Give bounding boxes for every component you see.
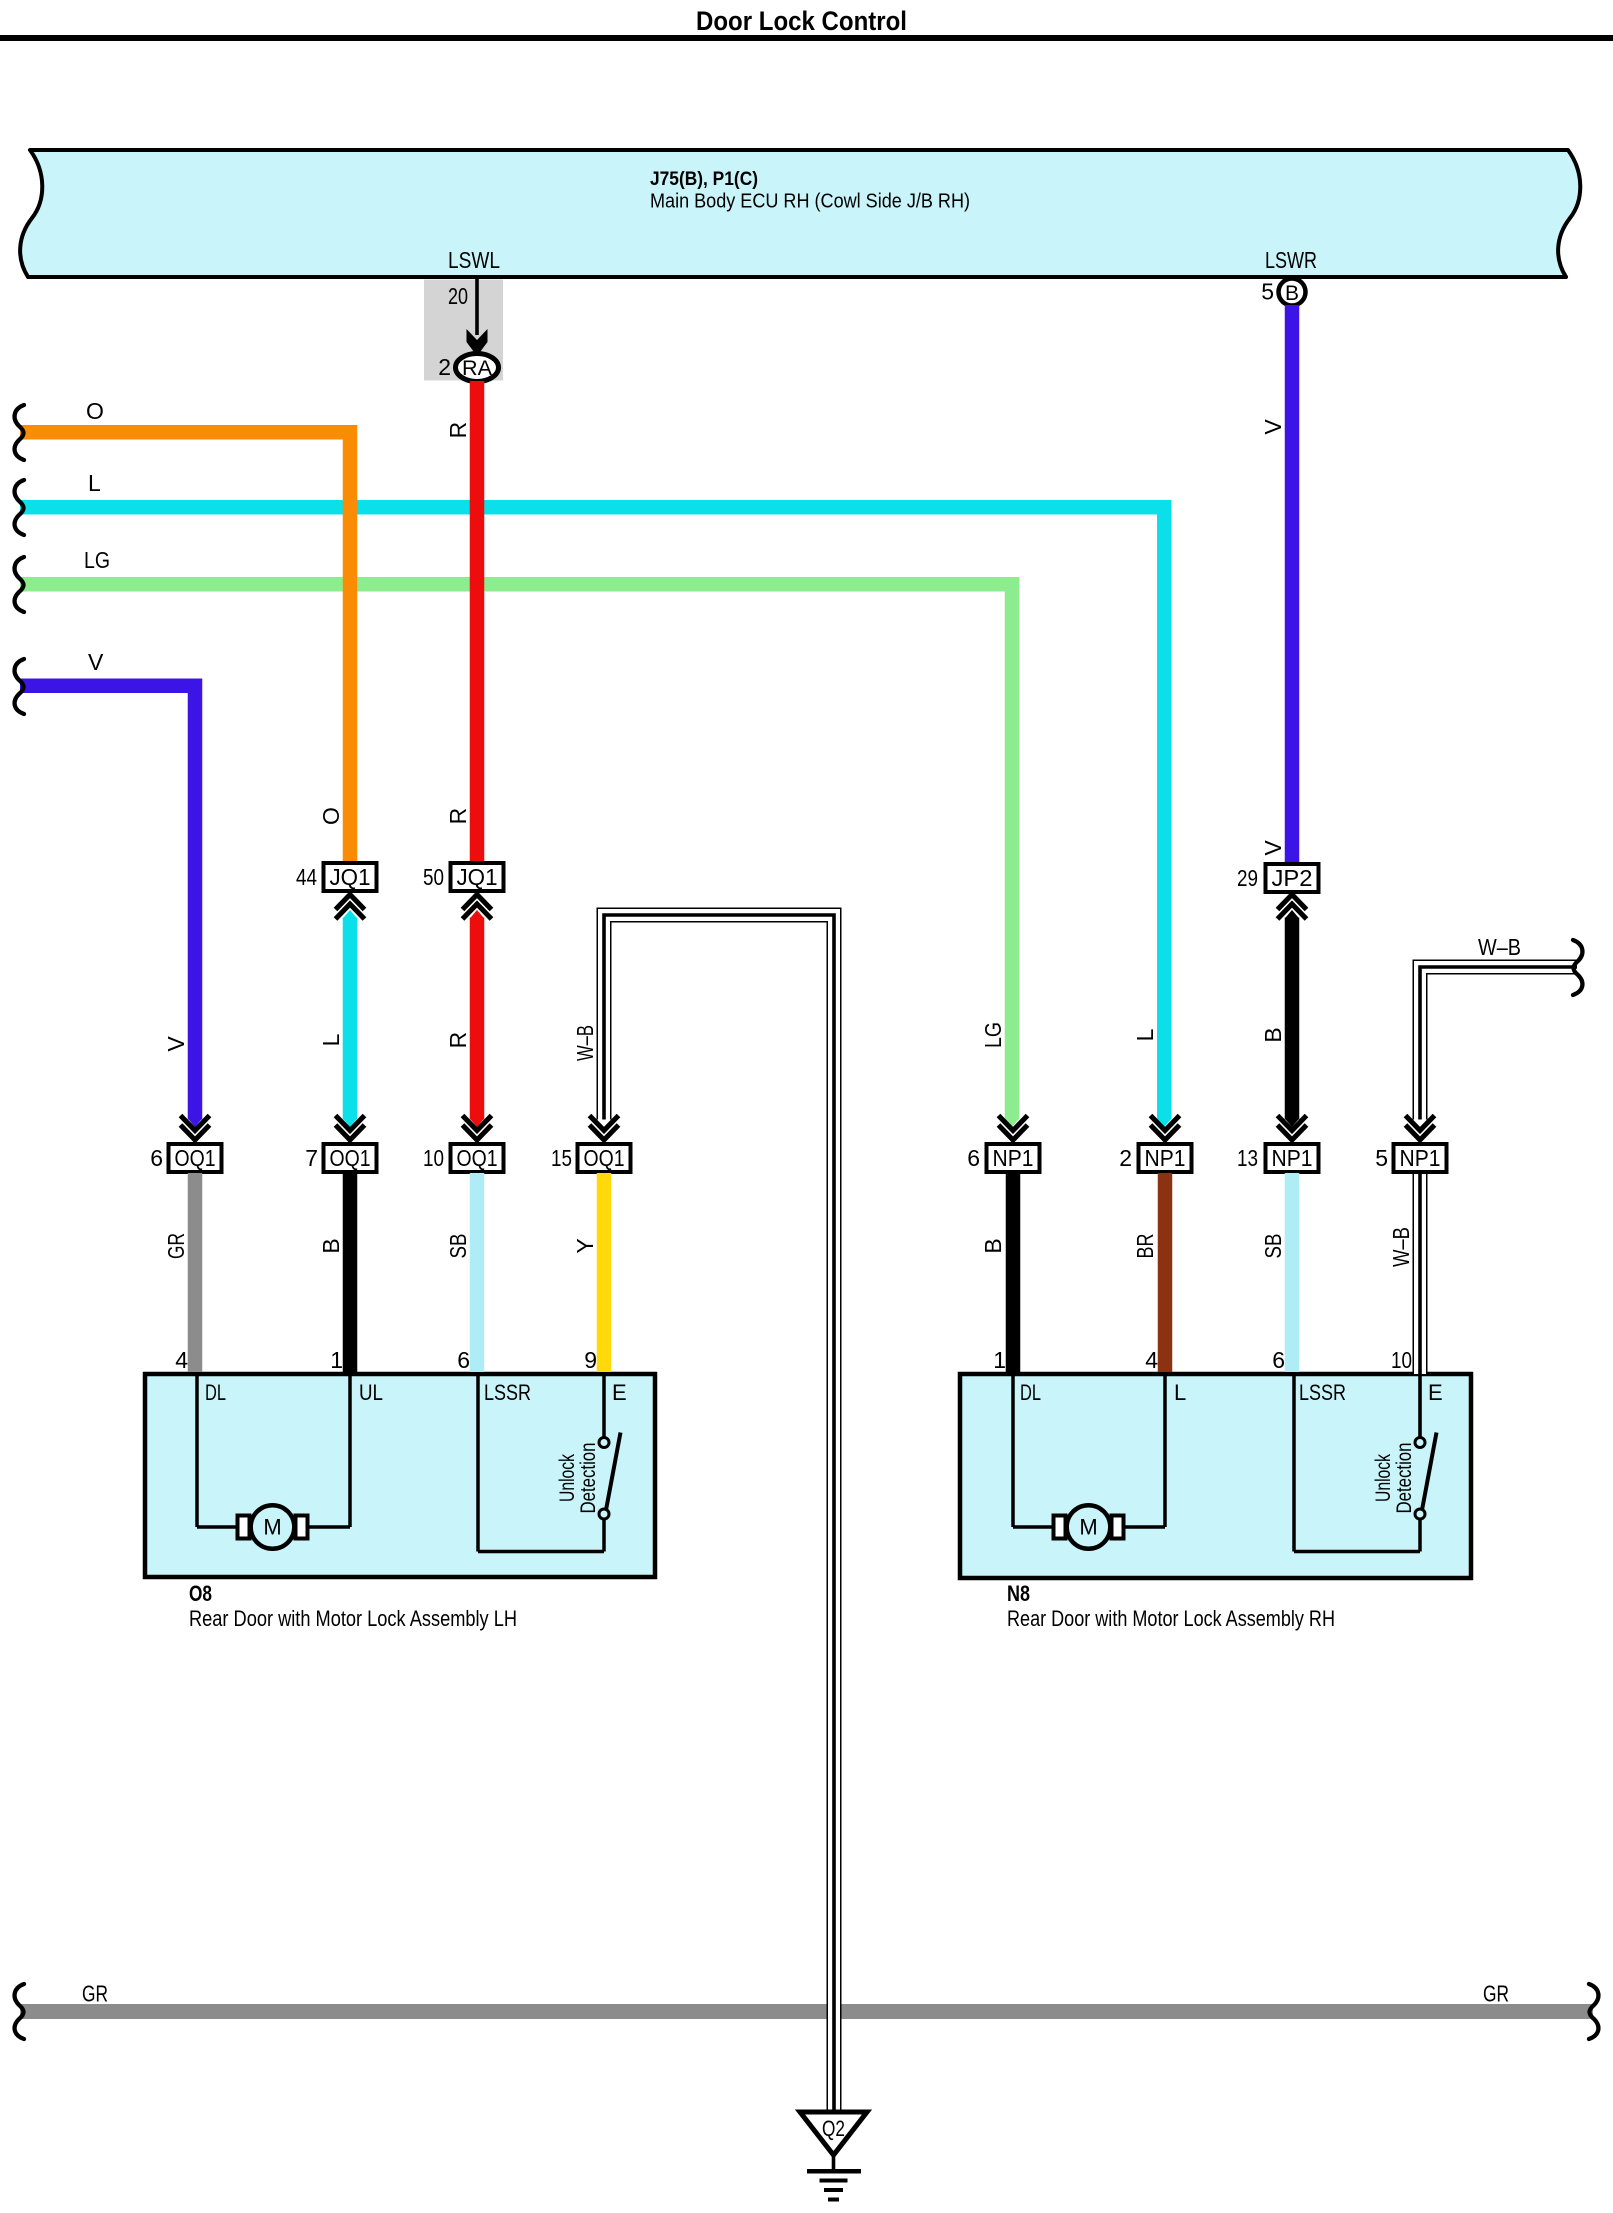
- svg-text:LSSR: LSSR: [1299, 1380, 1346, 1405]
- svg-text:V: V: [163, 1036, 189, 1052]
- connector JQ1 pin 44: [296, 863, 377, 891]
- arrow into NP1 2: [1151, 1116, 1180, 1145]
- svg-text:6: 6: [967, 1145, 980, 1171]
- block N8 LSSR loop: [1294, 1376, 1420, 1552]
- arrow into OQ1 6: [181, 1116, 210, 1145]
- caption O8: [189, 1581, 517, 1631]
- svg-text:B: B: [980, 1238, 1006, 1253]
- block N8 terminal labels: [1020, 1380, 1443, 1405]
- svg-text:4: 4: [1145, 1347, 1158, 1373]
- svg-text:W–B: W–B: [1388, 1227, 1414, 1267]
- connector OQ1 pin 15: [551, 1144, 631, 1172]
- title rule: [0, 35, 1613, 41]
- connector OQ1 pin 10: [423, 1144, 504, 1172]
- arrow into OQ1 10: [463, 1116, 492, 1145]
- title: Door Lock Control: [696, 6, 907, 36]
- label R middle: [445, 808, 471, 825]
- wire B from OQ1 7 to O8 pin 1: [343, 1173, 358, 1372]
- connector NP1 pin 2: [1119, 1144, 1191, 1172]
- svg-text:SB: SB: [445, 1234, 471, 1259]
- pin label LSWL: [448, 247, 500, 273]
- arrow into OQ1 15: [590, 1116, 619, 1145]
- svg-text:O: O: [86, 398, 104, 424]
- svg-text:Unlock: Unlock: [1372, 1454, 1395, 1502]
- pin 6 of O8: [457, 1347, 470, 1373]
- svg-text:B: B: [1285, 282, 1299, 305]
- svg-text:GR: GR: [1483, 1981, 1509, 2007]
- wire R (red) from JQ1 50 to OQ1 10: [470, 910, 485, 1127]
- block O8 terminal labels: [205, 1380, 627, 1405]
- svg-text:10: 10: [423, 1145, 444, 1171]
- label L right vertical: [1132, 1028, 1158, 1041]
- svg-text:1: 1: [330, 1347, 343, 1373]
- label R upper: [445, 422, 471, 439]
- connector JP2 pin 29: [1237, 864, 1319, 892]
- label V right upper: [1260, 419, 1286, 435]
- caption N8: [1007, 1581, 1335, 1631]
- svg-text:Rear Door with Motor Lock Asse: Rear Door with Motor Lock Assembly RH: [1007, 1606, 1335, 1631]
- wire SB from NP1 13 to N8 pin 6: [1285, 1173, 1300, 1372]
- svg-text:5: 5: [1261, 279, 1274, 305]
- block O8 DL lead: [197, 1376, 237, 1527]
- svg-text:O8: O8: [189, 1581, 212, 1606]
- label V left vertical: [163, 1036, 189, 1052]
- wire W-B from OQ1 15 to ground Q2: [604, 915, 834, 2112]
- svg-text:LSSR: LSSR: [484, 1380, 531, 1405]
- svg-text:W–B: W–B: [1478, 934, 1521, 960]
- wire L (cyan) from JQ1 44 to OQ1 7: [343, 910, 358, 1127]
- label L: [88, 470, 101, 496]
- label V: [88, 649, 104, 675]
- label W-B right: [1478, 934, 1521, 960]
- label SB right vertical: [1260, 1234, 1286, 1259]
- wire B from NP1 6 to N8 pin 1: [1006, 1173, 1021, 1372]
- svg-text:6: 6: [1272, 1347, 1285, 1373]
- wire Y from OQ1 15 to O8 pin 9: [597, 1173, 612, 1372]
- svg-text:29: 29: [1237, 865, 1258, 891]
- label O vertical: [318, 807, 344, 825]
- GR bus bar: [20, 2004, 1593, 2019]
- wire SB from OQ1 10 to O8 pin 6: [470, 1173, 485, 1372]
- pin 4 of N8: [1145, 1347, 1158, 1373]
- block N8 Rear Door with Motor Lock Assembly RH (outline): [960, 1374, 1471, 1578]
- arrow into JP2 29: [1278, 890, 1307, 919]
- svg-text:B: B: [318, 1238, 344, 1253]
- connector B pin 5: [1261, 279, 1305, 306]
- svg-text:7: 7: [305, 1145, 318, 1171]
- label W-B right vertical: [1388, 1227, 1414, 1267]
- svg-text:Detection: Detection: [577, 1443, 600, 1514]
- svg-text:J75(B), P1(C): J75(B), P1(C): [650, 169, 758, 190]
- svg-text:V: V: [88, 649, 104, 675]
- svg-text:OQ1: OQ1: [175, 1145, 216, 1171]
- svg-text:L: L: [318, 1033, 344, 1046]
- wire BR from NP1 2 to N8 pin 4: [1158, 1173, 1173, 1372]
- svg-text:Rear Door with Motor Lock Asse: Rear Door with Motor Lock Assembly LH: [189, 1606, 517, 1631]
- splice RA pin 2: [438, 354, 498, 382]
- svg-text:GR: GR: [82, 1981, 108, 2007]
- svg-text:R: R: [445, 422, 471, 439]
- label B JP2 wire: [1260, 1027, 1286, 1042]
- label Unlock Detection N8: [1372, 1443, 1416, 1514]
- svg-text:9: 9: [584, 1347, 597, 1373]
- svg-text:O: O: [318, 807, 344, 825]
- pin 10 of N8: [1391, 1347, 1412, 1373]
- svg-text:E: E: [1428, 1380, 1443, 1405]
- svg-text:NP1: NP1: [1145, 1145, 1186, 1171]
- block O8 LSSR loop: [478, 1376, 604, 1552]
- connector JQ1 pin 50: [423, 863, 504, 891]
- block N8 L lead: [1123, 1376, 1165, 1527]
- unlock detection switch of N8: [1415, 1433, 1437, 1520]
- label O: [86, 398, 104, 424]
- break symbol wire O: [15, 405, 24, 460]
- svg-text:R: R: [445, 1032, 471, 1049]
- svg-text:OQ1: OQ1: [330, 1145, 371, 1171]
- pin 9 of O8: [584, 1347, 597, 1373]
- svg-text:GR: GR: [163, 1233, 189, 1259]
- svg-text:B: B: [1260, 1027, 1286, 1042]
- motor M of O8: [238, 1505, 308, 1549]
- svg-text:SB: SB: [1260, 1234, 1286, 1259]
- break symbol wire L: [15, 480, 24, 535]
- pin 20 lead with arrow: [448, 277, 488, 356]
- block O8 UL lead: [307, 1376, 350, 1527]
- wire V (violet) from connector B to JP2 29: [1285, 305, 1300, 864]
- break symbol wire LG: [15, 557, 24, 612]
- svg-text:6: 6: [457, 1347, 470, 1373]
- arrow into JQ1 44: [336, 890, 365, 919]
- pin label LSWR: [1265, 247, 1317, 273]
- label Y vertical: [572, 1238, 598, 1253]
- break symbol wire W-B right: [1573, 940, 1582, 995]
- pin 4 of O8: [175, 1347, 188, 1373]
- svg-text:Detection: Detection: [1393, 1443, 1416, 1514]
- svg-text:LG: LG: [84, 547, 110, 573]
- svg-text:Unlock: Unlock: [556, 1454, 579, 1502]
- pin 1 of O8: [330, 1347, 343, 1373]
- svg-text:JQ1: JQ1: [457, 864, 498, 890]
- motor M of N8: [1054, 1505, 1124, 1549]
- svg-text:M: M: [263, 1515, 281, 1540]
- svg-text:Main Body ECU RH (Cowl Side J/: Main Body ECU RH (Cowl Side J/B RH): [650, 191, 970, 213]
- label BR vertical: [1132, 1234, 1158, 1259]
- label V right middle: [1260, 840, 1286, 856]
- svg-text:L: L: [1174, 1380, 1186, 1405]
- svg-text:Q2: Q2: [822, 2116, 845, 2141]
- connector OQ1 pin 7: [305, 1144, 376, 1172]
- svg-text:44: 44: [296, 864, 317, 890]
- ground Q2: [800, 2112, 867, 2202]
- svg-text:OQ1: OQ1: [584, 1145, 625, 1171]
- wire R (red) from splice RA to JQ1 50: [470, 381, 485, 863]
- connector NP1 pin 5: [1375, 1144, 1446, 1172]
- break symbol GR right: [1589, 1984, 1598, 2039]
- wire V (violet) from left edge to OQ1 6: [20, 686, 202, 1127]
- connector NP1 pin 6: [967, 1144, 1039, 1172]
- break symbol GR left: [15, 1984, 24, 2039]
- svg-text:RA: RA: [462, 357, 492, 380]
- label LG: [84, 547, 110, 573]
- pin 6 of N8: [1272, 1347, 1285, 1373]
- wire W-B stripe inside block N8: [1418, 1374, 1422, 1438]
- block O8 Rear Door with Motor Lock Assembly LH (outline): [145, 1374, 655, 1577]
- svg-text:6: 6: [150, 1145, 163, 1171]
- wire B (black) from JP2 29 to NP1 13: [1285, 910, 1300, 1127]
- svg-text:4: 4: [175, 1347, 188, 1373]
- svg-text:L: L: [1132, 1028, 1158, 1041]
- svg-text:Door Lock Control: Door Lock Control: [696, 6, 907, 36]
- arrow into NP1 5: [1406, 1116, 1435, 1145]
- svg-text:DL: DL: [1020, 1380, 1041, 1405]
- connector OQ1 pin 6: [150, 1144, 221, 1172]
- svg-text:M: M: [1079, 1515, 1097, 1540]
- svg-text:LSWR: LSWR: [1265, 247, 1317, 273]
- svg-text:V: V: [1260, 419, 1286, 435]
- label GR vertical: [163, 1233, 189, 1259]
- svg-text:Y: Y: [572, 1238, 598, 1253]
- svg-text:2: 2: [438, 354, 451, 380]
- label B left vertical: [318, 1238, 344, 1253]
- label GR left: [82, 1981, 108, 2007]
- svg-text:E: E: [612, 1380, 627, 1405]
- break symbol wire V: [15, 659, 24, 714]
- wire LG (light green) from left edge to NP1 6: [20, 584, 1019, 1127]
- svg-text:V: V: [1260, 840, 1286, 856]
- label GR right: [1483, 1981, 1509, 2007]
- svg-text:13: 13: [1237, 1145, 1258, 1171]
- svg-text:LSWL: LSWL: [448, 247, 500, 273]
- label R lower: [445, 1032, 471, 1049]
- pin 1 of N8: [993, 1347, 1006, 1373]
- wire L (cyan) from left edge to NP1 2: [20, 507, 1172, 1127]
- arrow into JQ1 50: [463, 890, 492, 919]
- label L left vertical: [318, 1033, 344, 1046]
- connector NP1 pin 13: [1237, 1144, 1319, 1172]
- label LG vertical: [980, 1022, 1006, 1048]
- label B right vertical: [980, 1238, 1006, 1253]
- svg-text:2: 2: [1119, 1145, 1132, 1171]
- svg-text:DL: DL: [205, 1380, 226, 1405]
- wire W-B from NP1 5 to block N8 pin 10: [1413, 1173, 1428, 1374]
- svg-text:JQ1: JQ1: [330, 864, 371, 890]
- svg-text:NP1: NP1: [993, 1145, 1034, 1171]
- svg-text:N8: N8: [1007, 1581, 1030, 1606]
- svg-text:OQ1: OQ1: [457, 1145, 498, 1171]
- splice area shading: [424, 280, 503, 381]
- svg-text:50: 50: [423, 864, 444, 890]
- svg-text:JP2: JP2: [1272, 865, 1313, 891]
- arrow into NP1 6: [999, 1116, 1028, 1145]
- unlock detection switch of O8: [599, 1376, 621, 1519]
- wire GR from OQ1 6 to O8 pin 4: [188, 1173, 203, 1372]
- wire W-B from right edge to NP1 5: [1420, 967, 1577, 1120]
- ECU banner J75(B) P1(C) Main Body ECU RH (Cowl Side J/B RH): [20, 150, 1580, 277]
- svg-text:R: R: [445, 808, 471, 825]
- svg-text:BR: BR: [1132, 1234, 1158, 1259]
- svg-text:20: 20: [448, 283, 468, 309]
- label W-B vertical left: [572, 1025, 598, 1061]
- label SB left vertical: [445, 1234, 471, 1259]
- svg-text:15: 15: [551, 1145, 572, 1171]
- svg-text:NP1: NP1: [1400, 1145, 1441, 1171]
- svg-text:LG: LG: [980, 1022, 1006, 1048]
- svg-text:W–B: W–B: [572, 1025, 598, 1061]
- svg-text:10: 10: [1391, 1347, 1412, 1373]
- arrow into OQ1 7: [336, 1116, 365, 1145]
- arrow into NP1 13: [1278, 1116, 1307, 1145]
- svg-text:L: L: [88, 470, 101, 496]
- svg-text:1: 1: [993, 1347, 1006, 1373]
- svg-text:NP1: NP1: [1272, 1145, 1313, 1171]
- wire O (orange) from left edge to JQ1 44: [20, 432, 350, 863]
- block N8 DL lead: [1013, 1376, 1053, 1527]
- svg-text:UL: UL: [359, 1380, 383, 1405]
- label Unlock Detection O8: [556, 1443, 600, 1514]
- svg-text:5: 5: [1375, 1145, 1388, 1171]
